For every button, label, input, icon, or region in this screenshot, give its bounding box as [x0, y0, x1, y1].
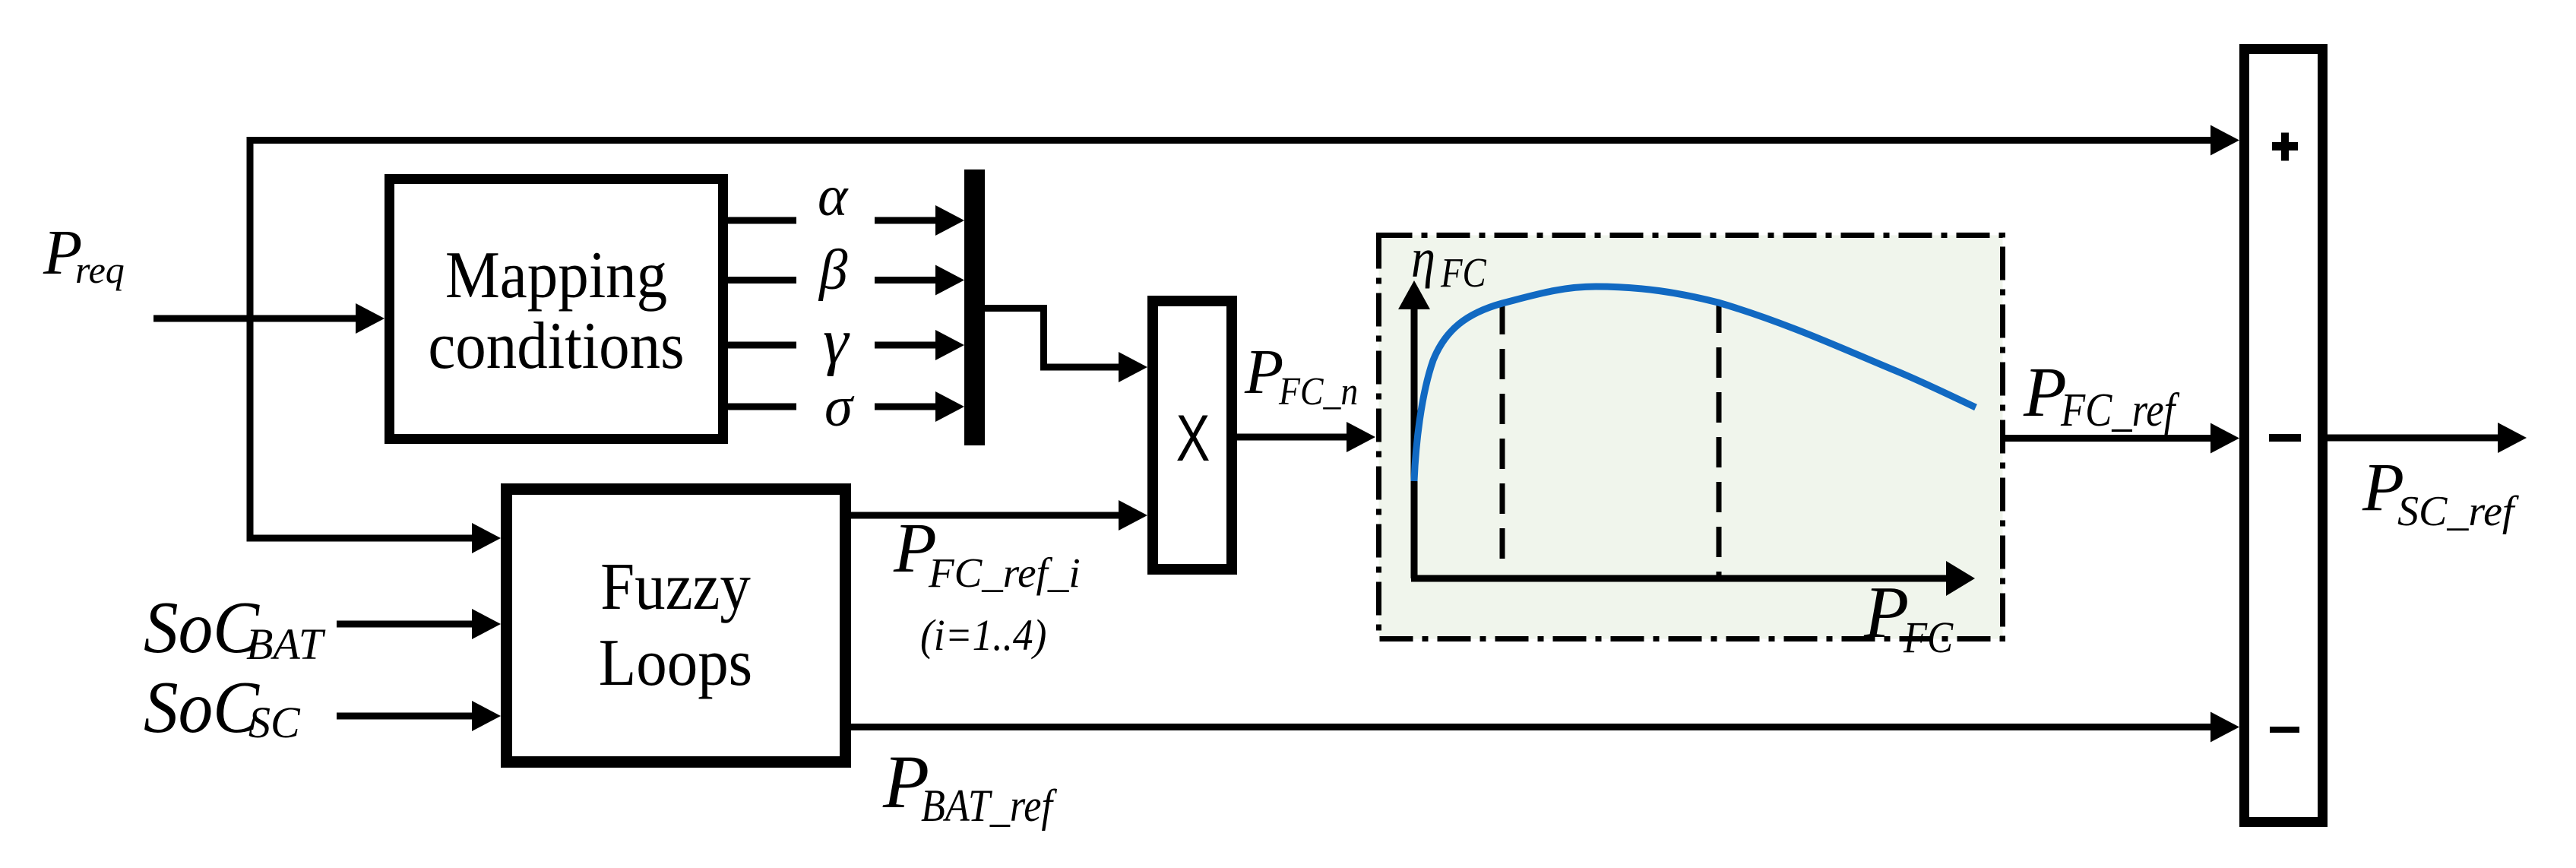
wire alpha stub from Mapping: [726, 217, 796, 224]
svg-text:Fuzzy: Fuzzy: [600, 550, 751, 624]
arrowhead branch into Fuzzy Loops: [472, 523, 501, 553]
plot x-axis P_FC: [1411, 561, 1975, 596]
summer minus sign bottom: [2270, 727, 2299, 733]
wire P_FC_ref to summer minus input: [2001, 423, 2239, 454]
wire SoC_BAT into Fuzzy Loops: [337, 609, 501, 639]
node P_req label: [43, 217, 125, 291]
wire P_req into Mapping conditions: [153, 315, 357, 322]
node P_FC axis label: [1863, 572, 1954, 662]
wire P_req branch vertical down to Fuzzy Loops input: [250, 137, 473, 538]
svg-text:η: η: [1411, 227, 1435, 289]
wire Fuzzy Loops P_BAT_ref output to summer minus input: [851, 712, 2239, 743]
block Fuzzy Loops: [507, 489, 846, 762]
summer minus sign middle: [2269, 434, 2301, 442]
svg-text:FC_ref_i: FC_ref_i: [928, 550, 1081, 596]
node P_FC_ref_i label: [893, 509, 1081, 596]
wire sigma arrow into mux: [875, 391, 964, 422]
dashed threshold line 2: [1717, 303, 1722, 575]
wire Fuzzy Loops P_FC_ref_i output to multiplier: [851, 500, 1147, 531]
wire summer output P_SC_ref: [2328, 423, 2527, 453]
svg-text:BAT: BAT: [246, 619, 326, 669]
block multiplier X: [1153, 301, 1232, 569]
svg-text:SoC: SoC: [144, 667, 260, 748]
efficiency map dash-dot box: [1379, 236, 2003, 639]
node P_FC_ref label: [2023, 353, 2180, 436]
wire sigma stub from Mapping: [726, 404, 796, 410]
wire beta arrow into mux: [875, 265, 964, 296]
plot y-axis eta_FC: [1398, 280, 1430, 578]
efficiency curve: [1414, 287, 1976, 481]
svg-text:BAT_ref: BAT_ref: [921, 781, 1058, 832]
svg-text:req: req: [75, 249, 125, 291]
node P_FC_n label: [1244, 337, 1358, 413]
svg-text:α: α: [818, 165, 849, 228]
svg-text:SC_ref: SC_ref: [2397, 488, 2520, 535]
wire gamma stub from Mapping: [726, 342, 796, 349]
summer plus sign: [2272, 133, 2298, 161]
arrowhead top wire into summer: [2210, 125, 2239, 156]
svg-text:(i=1..4): (i=1..4): [920, 611, 1046, 661]
wire beta stub from Mapping: [726, 277, 796, 284]
wire top feedforward P_req to summer plus input: [250, 137, 2212, 144]
svg-text:SC: SC: [248, 698, 301, 747]
wire gamma arrow into mux: [875, 330, 964, 360]
svg-text:Mapping: Mapping: [445, 239, 667, 312]
node SoC_BAT label: [144, 587, 326, 669]
wire SoC_SC into Fuzzy Loops: [337, 701, 501, 731]
svg-text:X: X: [1176, 402, 1210, 475]
svg-text:P: P: [1244, 337, 1283, 407]
svg-text:Loops: Loops: [599, 626, 752, 700]
svg-text:FC: FC: [1903, 613, 1954, 662]
arrowhead P_req into Mapping: [356, 303, 385, 334]
dashed threshold line 1: [1500, 304, 1505, 560]
wire alpha arrow into mux: [875, 205, 964, 236]
wire mux output to multiplier: [985, 309, 1120, 368]
arrowhead mux output into multiplier: [1119, 352, 1147, 382]
node eta_FC label: [1411, 227, 1487, 296]
svg-text:P: P: [1863, 572, 1909, 653]
svg-text:SoC: SoC: [144, 587, 260, 668]
svg-text:FC_n: FC_n: [1278, 369, 1358, 413]
svg-text:FC: FC: [1440, 251, 1487, 296]
wire multiplier output P_FC_n to efficiency map: [1237, 422, 1375, 452]
svg-text:σ: σ: [824, 375, 855, 439]
svg-text:conditions: conditions: [428, 309, 684, 383]
node P_SC_ref label: [2362, 450, 2520, 535]
mux bar: [964, 169, 985, 445]
svg-text:FC_ref: FC_ref: [2060, 385, 2180, 436]
node SoC_SC label: [144, 667, 301, 748]
node P_BAT_ref label: [882, 740, 1058, 832]
svg-text:β: β: [818, 239, 848, 302]
block summer: [2245, 49, 2323, 822]
svg-text:P: P: [2023, 353, 2067, 432]
svg-text:γ: γ: [823, 306, 850, 377]
block Mapping conditions: [390, 179, 723, 439]
